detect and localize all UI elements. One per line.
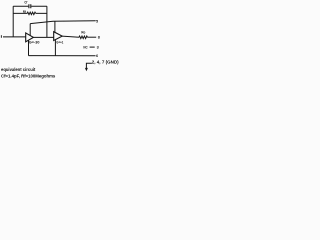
svg-text:8: 8 <box>98 36 100 40</box>
wire NC stub to pin 3 <box>90 46 95 48</box>
wire op-amp A1 output <box>33 36 54 38</box>
wire top feedback loop (Cf branch) <box>13 5 47 7</box>
svg-text:5: 5 <box>96 20 98 24</box>
svg-text:3: 3 <box>97 46 99 50</box>
svg-text:Cf=1.4pF, Rf=100Megohms: Cf=1.4pF, Rf=100Megohms <box>1 73 56 78</box>
wire riser op-amp A1 bottom to rail <box>28 40 30 56</box>
wire feedback left vertical <box>12 6 14 37</box>
ground arrow (pins 2,4,7) <box>85 68 88 71</box>
wire top output rail to pin 5 <box>30 21 96 24</box>
pin 1 label <box>0 35 2 38</box>
wire riser rail to op-amp A2 top <box>54 21 56 32</box>
svg-text:G=-30: G=-30 <box>29 41 40 45</box>
svg-text:6: 6 <box>96 54 98 58</box>
wire riser op-amp A2 bottom to rail <box>54 40 56 56</box>
svg-text:Ro: Ro <box>81 30 85 35</box>
capacitor Cf <box>29 4 31 8</box>
wire riser rail to op-amp A1 top <box>29 24 31 36</box>
wire input line from pin 1 <box>3 36 26 38</box>
wire output to pin 8 <box>87 36 96 38</box>
wire Rf branch left segment <box>13 12 27 14</box>
svg-text:2, 4, 7 (GND): 2, 4, 7 (GND) <box>92 60 119 65</box>
op-amp A2 <box>54 32 63 41</box>
resistor Ro <box>79 36 87 39</box>
svg-text:Cf: Cf <box>24 0 28 4</box>
svg-text:G=+1: G=+1 <box>56 41 63 45</box>
wire op-amp A2 output <box>62 36 79 37</box>
wire bottom common rail to pin 6 <box>29 55 96 57</box>
resistor Rf <box>27 12 36 14</box>
svg-text:equivalent circuit: equivalent circuit <box>1 67 36 72</box>
op-amp A1 <box>26 33 34 42</box>
ground stub wire <box>86 63 92 68</box>
svg-text:NC: NC <box>83 45 88 49</box>
wire feedback right vertical <box>46 6 48 37</box>
wire Rf branch right segment <box>36 12 47 14</box>
